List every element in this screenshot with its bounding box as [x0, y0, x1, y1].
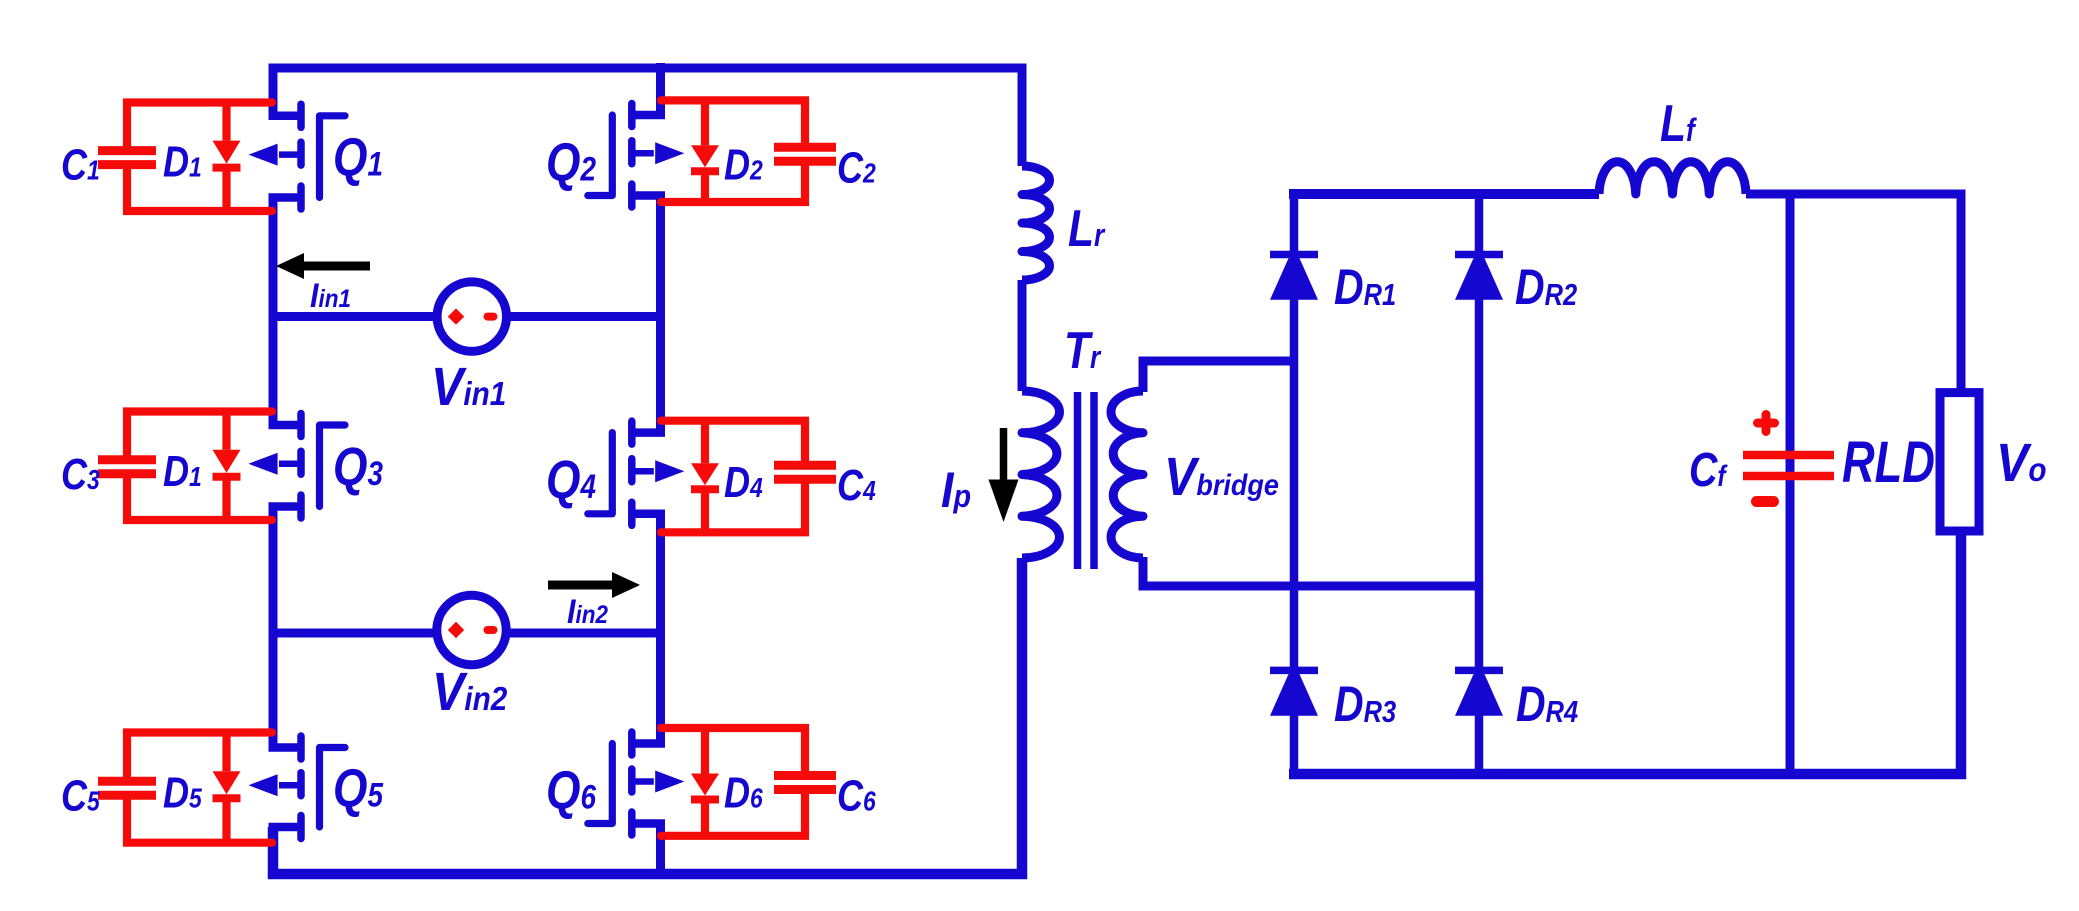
transistor Q5	[249, 736, 346, 839]
source Vin1	[437, 282, 506, 351]
label Iin1	[310, 277, 351, 315]
label Lr	[1068, 200, 1106, 258]
svg-text:C5: C5	[61, 771, 100, 820]
label Q3	[333, 437, 383, 497]
svg-text:C4: C4	[837, 461, 876, 510]
svg-text:Vbridge: Vbridge	[1164, 446, 1279, 507]
diode DR4	[1455, 670, 1503, 715]
diode D1	[213, 103, 241, 212]
wire right rail segment 3	[656, 514, 665, 744]
label C4	[837, 461, 876, 510]
label DR4	[1516, 676, 1578, 732]
label C3	[61, 449, 100, 498]
svg-text:Q4: Q4	[546, 450, 596, 510]
label Q1	[333, 128, 383, 188]
svg-text:Q2: Q2	[546, 132, 596, 192]
label D1	[163, 446, 202, 495]
arrow Iin1	[276, 253, 370, 279]
svg-text:D1: D1	[163, 446, 202, 495]
svg-text:DR4: DR4	[1516, 676, 1578, 732]
svg-text:D2: D2	[724, 140, 763, 189]
inductor Lr	[1022, 166, 1050, 280]
transistor Q6	[588, 732, 685, 835]
wire Cf branch	[1786, 194, 1795, 774]
diode DR2	[1455, 255, 1503, 300]
label D5	[163, 768, 202, 817]
label DR1	[1334, 259, 1396, 315]
diode D4	[691, 421, 719, 533]
transistor Q2	[588, 104, 685, 208]
wire left rail segment 2	[269, 198, 278, 426]
capacitor C2	[661, 100, 836, 202]
label Lf	[1660, 95, 1698, 153]
label C1	[61, 140, 100, 189]
label Tr	[1064, 322, 1102, 380]
svg-text:RLD: RLD	[1842, 431, 1935, 496]
wire Lf to load	[1746, 194, 1961, 393]
label D4	[724, 458, 763, 507]
wire secondary top lead	[1143, 361, 1294, 392]
label RLD	[1842, 431, 1935, 496]
label Q2	[546, 132, 596, 192]
label Vin2	[432, 661, 508, 722]
svg-text:Q3: Q3	[333, 437, 383, 497]
label Q6	[546, 760, 597, 820]
label Vbridge	[1164, 446, 1279, 507]
label D1	[163, 137, 202, 186]
resistor RLD	[1940, 393, 1979, 531]
diode D1	[213, 412, 241, 521]
svg-text:DR3: DR3	[1334, 676, 1396, 732]
arrow Iin2	[548, 572, 640, 598]
transistor Q3	[249, 414, 346, 519]
diode D6	[691, 728, 719, 836]
wire bottom rail	[273, 558, 1022, 874]
capacitor C5	[98, 733, 272, 843]
label Cf plus	[1758, 415, 1775, 432]
label C2	[837, 143, 876, 192]
capacitor C3	[98, 412, 272, 521]
transformer Tr secondary winding	[1111, 391, 1143, 558]
wire right rail segment 2	[656, 196, 665, 433]
wire rectifier bottom rail	[1289, 531, 1961, 774]
label Cf	[1689, 443, 1728, 497]
svg-text:D1: D1	[163, 137, 202, 186]
label Vin1	[431, 356, 506, 417]
svg-text:C6: C6	[837, 771, 876, 820]
capacitor Cf	[1743, 455, 1834, 476]
label C5	[61, 771, 100, 820]
wire right rail segment 4	[656, 824, 665, 880]
transistor Q4	[588, 421, 685, 525]
label Q5	[333, 758, 384, 818]
label C6	[837, 771, 876, 820]
svg-text:Q6: Q6	[546, 760, 597, 820]
source Vin2	[437, 595, 506, 664]
label Q4	[546, 450, 596, 510]
svg-text:D5: D5	[163, 768, 202, 817]
arrow Ip	[989, 428, 1019, 522]
wire secondary bottom lead	[1143, 557, 1479, 586]
wire Vin2 row	[273, 629, 661, 638]
svg-text:DR2: DR2	[1515, 259, 1577, 315]
wire rectifier top rail	[1289, 189, 1599, 199]
wire rectifier left rail	[1290, 194, 1299, 774]
label D2	[724, 140, 763, 189]
wire Vin1 row	[273, 312, 661, 321]
svg-text:Q5: Q5	[333, 758, 384, 818]
svg-text:DR1: DR1	[1334, 259, 1396, 315]
label Iin2	[567, 593, 608, 631]
label Cf minus	[1757, 496, 1774, 507]
transistor Q1	[249, 104, 346, 209]
label D6	[724, 768, 763, 817]
capacitor C6	[661, 728, 836, 836]
svg-text:Cf: Cf	[1689, 443, 1728, 497]
diode D5	[213, 733, 241, 843]
wire right rail segment 1	[656, 63, 665, 115]
inductor Lf	[1599, 162, 1746, 194]
svg-text:Lf: Lf	[1660, 95, 1698, 153]
capacitor C1	[98, 103, 272, 212]
wire top rail	[273, 68, 1022, 166]
label Ip	[941, 463, 971, 519]
svg-text:C1: C1	[61, 140, 100, 189]
svg-text:Ip: Ip	[941, 463, 971, 519]
svg-text:Vin2: Vin2	[432, 661, 508, 722]
transformer Tr core	[1078, 392, 1095, 569]
diode DR1	[1270, 255, 1318, 300]
label Vo	[1996, 432, 2047, 493]
wire left rail segment 3	[269, 507, 278, 748]
capacitor C4	[661, 421, 836, 533]
svg-text:Iin1: Iin1	[310, 277, 351, 315]
label DR3	[1334, 676, 1396, 732]
svg-text:Tr: Tr	[1064, 322, 1102, 380]
svg-text:D4: D4	[724, 458, 763, 507]
svg-text:C3: C3	[61, 449, 100, 498]
diode D2	[691, 100, 719, 202]
svg-text:Lr: Lr	[1068, 200, 1106, 258]
svg-text:Iin2: Iin2	[567, 593, 608, 631]
svg-text:C2: C2	[837, 143, 876, 192]
svg-text:Vo: Vo	[1996, 432, 2047, 493]
wire rectifier right rail	[1475, 194, 1484, 774]
label DR2	[1515, 259, 1577, 315]
svg-text:Vin1: Vin1	[431, 356, 506, 417]
diode DR3	[1270, 670, 1318, 715]
wire Lr to transformer	[1018, 280, 1027, 391]
svg-text:D6: D6	[724, 768, 763, 817]
svg-text:Q1: Q1	[333, 128, 383, 188]
transformer Tr primary winding	[1022, 391, 1060, 558]
